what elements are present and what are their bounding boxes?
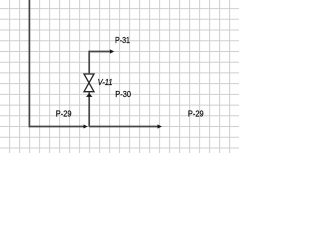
wire pipe P-29 left run (vertical drop and bottom horizontal)	[29, 0, 84, 127]
svg-text:P-30: P-30	[115, 89, 131, 99]
valve V-11 body bowtie	[84, 74, 94, 92]
svg-text:V-11: V-11	[98, 77, 113, 87]
wire pipe P-30 riser from junction to valve	[88, 93, 90, 127]
arrowhead flow up into valve V-11	[86, 93, 93, 97]
arrowhead P-31 outlet	[110, 49, 114, 53]
wire pipe P-31 from valve top, elbow to the right	[89, 52, 110, 75]
svg-text:P-29: P-29	[188, 109, 204, 119]
arrowhead flow into junction	[84, 124, 88, 128]
svg-text:P-29: P-29	[56, 109, 72, 119]
wire pipe P-29 right segment	[89, 126, 158, 128]
svg-text:P-31: P-31	[115, 35, 130, 45]
arrowhead P-29 outlet	[158, 124, 162, 128]
